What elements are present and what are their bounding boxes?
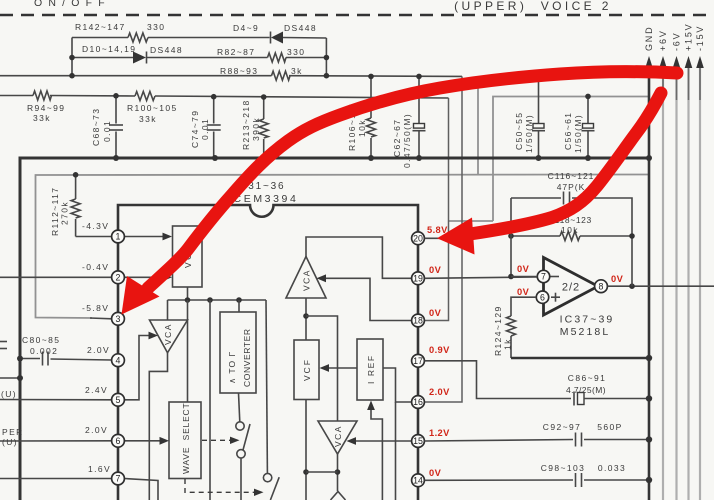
svg-text:(U): (U) — [2, 437, 18, 447]
svg-text:0V: 0V — [429, 468, 442, 478]
svg-text:-4.3V: -4.3V — [82, 221, 109, 231]
svg-text:R88~93: R88~93 — [220, 66, 258, 76]
svg-text:47P(K: 47P(K — [557, 182, 586, 192]
wire pin 1 stub — [76, 221, 112, 237]
svg-text:2: 2 — [116, 273, 121, 283]
svg-text:IC37~39: IC37~39 — [560, 314, 615, 326]
wire pin 19 to op-amp pin 7 — [425, 277, 538, 278]
junction dots x=72 — [69, 55, 75, 79]
pin 7 — [112, 472, 125, 485]
svg-text:R100~105: R100~105 — [127, 103, 178, 113]
wire VCA1 output down-left to bottom — [149, 353, 167, 500]
junction dot x=306 y=472 — [303, 469, 309, 475]
svg-text:-6V: -6V — [672, 32, 682, 51]
svg-text:270k: 270k — [60, 201, 70, 225]
junction dots on row C right portion — [368, 74, 422, 80]
svg-text:10k: 10k — [357, 119, 367, 137]
junction dot C98 at GND rail — [646, 477, 652, 483]
svg-text:VCA: VCA — [333, 425, 343, 447]
junction dots x=326.4 — [324, 55, 330, 79]
junction dot op-amp minus input — [508, 274, 514, 280]
svg-text:DS448: DS448 — [150, 45, 183, 55]
svg-text:C92~97: C92~97 — [543, 422, 581, 432]
pin 6 — [112, 434, 125, 447]
pin 5 — [112, 393, 125, 406]
op-amp VCA3 triangle (apex down) — [318, 421, 357, 454]
diode D4~9 DS448 (pointing left) — [233, 23, 317, 44]
svg-text:-5.8V: -5.8V — [82, 303, 109, 313]
wire x=266 down to switch 2 — [266, 300, 267, 473]
wire x=395.5 down to bottom — [395, 402, 397, 500]
resistor R100~105 33k — [127, 92, 178, 125]
svg-text:0V: 0V — [429, 308, 442, 318]
wire pin 15 to VCA3 input with arrow — [347, 437, 412, 445]
svg-text:0.47/50(M): 0.47/50(M) — [402, 113, 412, 168]
power rail +6V — [662, 68, 664, 500]
wire VCA3 apex down — [337, 454, 339, 491]
svg-text:C68~73: C68~73 — [91, 108, 101, 146]
svg-text:4.7/25(M): 4.7/25(M) — [566, 385, 606, 395]
pin 2 — [112, 271, 125, 284]
svg-text:R124~129: R124~129 — [493, 305, 503, 356]
resistor R94~99 33k — [27, 91, 65, 123]
wire x=187 down to WAVE SELECT top — [187, 300, 189, 402]
red arrow 2 curve to pin 20 — [437, 93, 661, 255]
wire ground return y=358 to GND rail — [511, 357, 649, 360]
red voltage 0V pin 18 — [429, 308, 442, 318]
wire vertical x=448 line F down to pin 18 — [425, 98, 449, 321]
svg-text:0V: 0V — [429, 265, 442, 275]
wire vertical x=326.4 joining rows A B C — [325, 38, 327, 76]
wire x=239 down to converter — [238, 300, 240, 312]
svg-text:1: 1 — [116, 232, 121, 242]
pin 1 — [112, 230, 125, 243]
svg-text:14: 14 — [413, 476, 423, 486]
power rail +15V — [687, 68, 689, 500]
red arrow 1 curve to pin 3 — [122, 72, 678, 315]
power arrow -15V — [695, 25, 705, 100]
op-amp VCA2 triangle (apex up) — [286, 257, 326, 299]
wire row A y=37.5 — [72, 37, 326, 40]
wire feedback vertical x=511 — [510, 198, 512, 277]
VCF box — [294, 340, 319, 400]
svg-text:17: 17 — [413, 356, 423, 366]
capacitor C62~67 0.47/50(M) electrolytic — [392, 76, 426, 168]
svg-text:C50~55: C50~55 — [514, 112, 524, 150]
wire up into I REF bottom with arrow — [367, 401, 382, 500]
wire pin 3 stub — [82, 303, 112, 319]
wire pin 18 to VCA2 input with arrow — [317, 274, 412, 320]
op-amp pin 7 circle — [537, 270, 549, 282]
svg-text:I REF: I REF — [366, 354, 376, 384]
svg-text:1/50(M): 1/50(M) — [573, 114, 583, 153]
label (UPPER) VOICE 2 — [454, 0, 612, 13]
wire op-amp pin 6 down through R124 — [511, 297, 536, 316]
svg-text:(U): (U) — [1, 389, 17, 399]
svg-text:7: 7 — [116, 474, 121, 484]
svg-text:-15V: -15V — [695, 25, 705, 51]
power arrow -6V — [672, 32, 682, 100]
I REF box — [357, 339, 383, 400]
junction dot R118 left — [508, 233, 514, 239]
wire pin 2 to VCO with arrow — [125, 273, 173, 281]
svg-text:R112~117: R112~117 — [50, 187, 60, 236]
svg-text:1.6V: 1.6V — [88, 464, 111, 474]
svg-text:DS448: DS448 — [284, 23, 317, 33]
svg-text:2.0V: 2.0V — [87, 345, 110, 355]
red voltage 0V op-amp pin 6 — [517, 287, 530, 297]
svg-text:8: 8 — [599, 281, 604, 291]
svg-text:WAVE SELECT: WAVE SELECT — [181, 403, 191, 474]
svg-text:R82~87: R82~87 — [217, 47, 255, 57]
svg-text:0V: 0V — [517, 264, 530, 274]
op-amp pin 8 circle — [595, 280, 608, 293]
svg-text:19: 19 — [413, 274, 423, 284]
svg-text:VCF: VCF — [302, 358, 312, 381]
switch S1 wave select — [236, 422, 250, 500]
wire y=472 cross link — [306, 471, 338, 473]
wire filter line F y=95.5..98 from left edge — [0, 96, 449, 99]
svg-text:CONVERTER: CONVERTER — [242, 328, 252, 387]
triangle buffer partial at bottom — [331, 492, 346, 500]
svg-text:33k: 33k — [33, 113, 51, 123]
wire VCF bottom down — [305, 400, 307, 500]
svg-text:33k: 33k — [139, 114, 157, 124]
svg-text:C56~61: C56~61 — [563, 112, 573, 150]
wire VCO output down — [187, 287, 189, 300]
resistor R82~87 330 — [217, 47, 305, 62]
svg-text:D4~9: D4~9 — [233, 23, 259, 33]
dashed control line wave select to S1 — [202, 437, 240, 444]
wire pin 7 from left edge — [0, 464, 112, 479]
svg-text:C116~121: C116~121 — [548, 171, 595, 181]
red voltage 0V pin 14 — [429, 468, 442, 478]
WAVE SELECT box — [169, 402, 201, 479]
svg-text:∧ TO Γ: ∧ TO Γ — [227, 351, 237, 384]
svg-text:CEM3394: CEM3394 — [234, 193, 299, 205]
power arrow +6V — [658, 29, 668, 100]
pin 18 — [412, 314, 425, 327]
wire pin 17 to C86 line — [425, 361, 572, 399]
wire I REF to VCF with arrow — [320, 364, 358, 372]
svg-text:0.033: 0.033 — [598, 463, 626, 473]
junction dot C86 at GND rail — [646, 395, 652, 401]
wire y=316 over to x=337 down to VCA3 — [306, 316, 338, 421]
svg-text:-0.4V: -0.4V — [82, 262, 109, 272]
pin 4 — [112, 354, 125, 367]
junction dot output feedback — [629, 283, 635, 289]
wire waveform line y=300 — [168, 299, 267, 301]
red voltage 0.9V pin 17 — [429, 345, 450, 355]
svg-text:0V: 0V — [611, 274, 624, 284]
svg-text:2/2: 2/2 — [562, 282, 580, 294]
svg-text:1k: 1k — [503, 338, 513, 350]
svg-text:2.0V: 2.0V — [429, 387, 450, 397]
svg-text:0.01: 0.01 — [102, 120, 112, 142]
svg-text:1.2V: 1.2V — [429, 428, 450, 438]
pin 20 — [412, 232, 425, 245]
svg-text:3: 3 — [116, 314, 121, 324]
GND rail vertical — [648, 158, 651, 500]
svg-text:C80~85: C80~85 — [22, 335, 60, 345]
wire pin 5 from left edge (U) — [0, 385, 112, 400]
resistor R124~129 1k — [493, 305, 516, 358]
junction dots on line F — [113, 93, 266, 100]
capacitor C92~97 560P — [543, 422, 649, 447]
wire pin 7 internal — [125, 479, 159, 500]
capacitor C50~55 1/50(M) electrolytic — [514, 73, 545, 159]
svg-text:C98~103: C98~103 — [541, 463, 586, 473]
capacitor C98~103 0.033 — [541, 463, 649, 487]
wire pin 1 to VCO with arrow — [125, 233, 173, 241]
pin 14 — [412, 474, 425, 487]
capacitor C74~79 0.01 — [190, 97, 221, 158]
svg-text:16: 16 — [413, 397, 423, 407]
op-amp pin 6 circle — [536, 291, 548, 303]
svg-text:D10~14,19: D10~14,19 — [82, 44, 136, 54]
wire into op-amp pin 7 — [511, 276, 537, 278]
svg-text:R94~99: R94~99 — [27, 103, 65, 113]
svg-text:0.01: 0.01 — [200, 118, 210, 140]
feedback wire top loop with capacitor C116~121 47P(K) — [511, 171, 632, 286]
resistor R88~93 3k — [220, 66, 303, 80]
svg-text:PER: PER — [2, 427, 24, 437]
wire grey highlight loop from pin 3 around left and top to GND corner — [36, 84, 650, 318]
svg-text:C62~67: C62~67 — [392, 119, 402, 157]
converter box (triangle to sawtooth) — [220, 312, 256, 393]
wire pin 14 to C98 — [425, 479, 574, 481]
capacitor C86~91 4.7/25(M) electrolytic — [566, 373, 649, 406]
svg-text:390k: 390k — [251, 117, 261, 141]
svg-text:VCA: VCA — [163, 323, 173, 345]
svg-text:7: 7 — [541, 272, 546, 282]
red voltage 1.2V pin 15 — [429, 428, 450, 438]
svg-text:(UPPER) VOICE 2: (UPPER) VOICE 2 — [454, 0, 612, 13]
svg-text:R213~218: R213~218 — [241, 99, 251, 150]
wire pin 5 up to VCA1 input with arrow — [125, 332, 159, 400]
capacitor C80~85 0.002 — [20, 335, 112, 366]
op-amp U IC37~39 triangle 2/2 — [544, 258, 615, 339]
resistor R118~123 10k feedback — [511, 215, 632, 241]
red voltage 0V op-amp output — [611, 274, 624, 284]
cut capacitor symbol at left edge — [0, 342, 7, 349]
svg-text:18: 18 — [413, 316, 423, 326]
svg-text:+6V: +6V — [658, 29, 668, 51]
wire op-amp output to right edge — [608, 285, 714, 287]
svg-text:1/50(M): 1/50(M) — [524, 114, 534, 153]
junction dots on waveform line — [185, 297, 242, 303]
pin 19 — [412, 272, 425, 285]
IC31~36 CEM3394 chip outline with notch — [118, 181, 418, 500]
red voltage 5.8V pin 20 — [427, 225, 448, 235]
junction dots on ground bus — [113, 155, 652, 161]
svg-text:6: 6 — [540, 292, 545, 302]
junction dot y=316 — [303, 313, 309, 319]
wire VCA2 base down to VCF — [305, 298, 307, 340]
wire pin 19 to VCA2 apex — [306, 237, 412, 278]
svg-text:M5218L: M5218L — [560, 326, 611, 338]
op-amp VCA1 triangle (apex down) — [150, 320, 188, 353]
wire pin 20 stub — [425, 237, 442, 239]
svg-text:GND: GND — [644, 26, 654, 51]
wire x=210 down to bottom edge — [209, 300, 211, 500]
VCO box — [173, 226, 203, 287]
wire pin 6 from left edge PER (U) — [0, 425, 112, 447]
svg-text:2.0V: 2.0V — [85, 425, 108, 435]
wire pin 6 to wave select with arrow — [125, 437, 170, 445]
wire vertical x=462 row C down to pin 16 — [425, 76, 463, 402]
svg-text:560P: 560P — [597, 422, 622, 432]
switch S2 — [263, 473, 279, 500]
wire I REF right to pin 16 — [383, 368, 412, 402]
svg-text:0.002: 0.002 — [30, 346, 58, 356]
power arrow GND — [644, 26, 654, 158]
wire converter bottom to switch 1 — [239, 393, 240, 422]
red voltage 0V pin 19 — [429, 265, 442, 275]
red voltage 2.0V pin 16 — [429, 387, 450, 397]
svg-text:5.8V: 5.8V — [427, 225, 448, 235]
junction dot x=337.5 y=472 — [335, 469, 341, 475]
ground bus y=158 — [20, 158, 650, 500]
resistor R112~117 270k — [50, 175, 80, 237]
svg-text:C74~79: C74~79 — [190, 110, 200, 148]
svg-text:R142~147: R142~147 — [75, 22, 126, 32]
svg-text:5: 5 — [116, 395, 121, 405]
pin 17 — [412, 354, 425, 367]
svg-text:2.4V: 2.4V — [85, 385, 108, 395]
svg-text:10k: 10k — [561, 225, 579, 235]
svg-text:4: 4 — [116, 355, 121, 365]
svg-text:330: 330 — [147, 22, 165, 32]
svg-text:0.9V: 0.9V — [429, 345, 450, 355]
junction dot C56 top on y=96 wire — [585, 94, 591, 100]
svg-text:C86~91: C86~91 — [568, 373, 606, 383]
resistor R142~147 — [75, 22, 165, 42]
resistor R213~218 390k — [241, 97, 268, 158]
wire row B y=57.5 — [72, 57, 326, 59]
svg-text:ON/OFF: ON/OFF — [34, 0, 111, 9]
svg-text:VCA: VCA — [302, 269, 312, 291]
power arrow +15V — [684, 23, 694, 100]
pin 15 — [412, 435, 425, 448]
diode D10~14,19 DS448 (pointing right) — [82, 44, 183, 64]
pin 16 — [412, 396, 425, 409]
power rail -6V — [675, 68, 677, 500]
pin 3 — [112, 312, 125, 325]
svg-text:330: 330 — [287, 47, 305, 57]
wire down to VCA1 top — [167, 300, 169, 320]
svg-text:3k: 3k — [291, 66, 303, 76]
power rail -15V — [699, 68, 701, 500]
svg-text:20: 20 — [413, 234, 423, 244]
junction dot R112 top — [73, 172, 79, 178]
dashed page border top — [0, 14, 714, 16]
svg-text:15: 15 — [413, 436, 423, 446]
junction dot C92 at GND rail — [646, 436, 652, 442]
dashed control line wave select bottom to S2 — [185, 479, 264, 496]
capacitor C68~73 0.01 — [91, 96, 123, 158]
label ON/OFF — [34, 0, 111, 9]
svg-text:6: 6 — [116, 436, 121, 446]
wire row C y=75.7 from left edge — [0, 75, 462, 78]
wire pin 15 to C92 — [425, 440, 574, 442]
svg-text:0V: 0V — [517, 287, 530, 297]
wire left edge stub y=378 — [0, 375, 23, 381]
svg-text:+15V: +15V — [684, 23, 694, 51]
junction dot ground return — [646, 355, 652, 361]
capacitor C56~61 1/50(M) electrolytic — [563, 96, 595, 158]
red voltage 0V op-amp pin 7 — [517, 264, 530, 274]
resistor R106~111 10k — [347, 76, 376, 158]
wire vertical x=72 joining rows A B C — [71, 38, 73, 76]
wire pin 2 from left edge — [0, 262, 112, 277]
junction dot R118 right — [629, 233, 635, 239]
junction dot left rail pin4 wire — [17, 356, 23, 362]
